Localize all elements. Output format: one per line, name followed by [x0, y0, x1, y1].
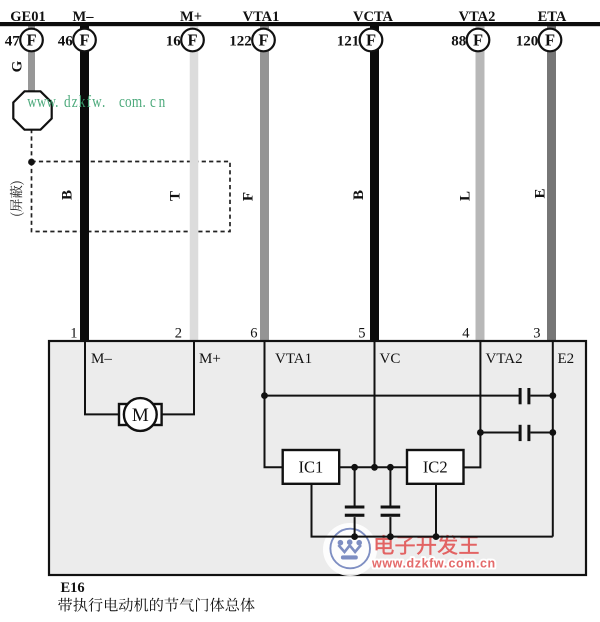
svg-text:VTA2: VTA2 — [459, 9, 496, 25]
watermark red url — [371, 557, 496, 571]
connector VTA2 pin 88 circle — [467, 29, 490, 52]
capacitor C1 — [354, 467, 356, 505]
connector VTA1 pin 122 circle — [252, 29, 275, 52]
node VC junction — [371, 464, 378, 471]
svg-text:VTA1: VTA1 — [275, 351, 312, 367]
wire VTA2 to IC2 — [464, 433, 481, 468]
wire G segment — [28, 26, 35, 92]
shield dashed box — [32, 162, 231, 232]
wire M- to motor — [85, 341, 118, 414]
svg-text:46: 46 — [58, 34, 74, 50]
svg-text:M: M — [132, 405, 149, 426]
node shield junction — [28, 159, 35, 166]
svg-text:ETA: ETA — [538, 9, 567, 25]
wire B (M–) — [80, 26, 89, 342]
svg-text:L: L — [458, 191, 474, 201]
svg-text:E: E — [533, 188, 549, 198]
ic IC2 — [407, 450, 464, 484]
svg-text:2: 2 — [175, 326, 182, 342]
svg-text:122: 122 — [229, 34, 252, 50]
svg-text:M–: M– — [73, 9, 95, 25]
connector M– pin 46 circle — [73, 29, 96, 52]
svg-text:com.: com. — [119, 93, 146, 112]
svg-text:88: 88 — [451, 34, 466, 50]
svg-text:1: 1 — [70, 326, 77, 342]
wire VC vertical — [374, 341, 376, 467]
svg-text:F: F — [79, 31, 89, 50]
svg-text:F: F — [473, 31, 483, 50]
svg-text:T: T — [168, 191, 184, 201]
node IC2 bottom — [433, 533, 440, 540]
connector GE01 pin 47 circle — [20, 29, 43, 52]
svg-text:E2: E2 — [558, 351, 575, 367]
svg-text:IC1: IC1 — [299, 458, 324, 477]
capacitor C4 — [519, 425, 522, 441]
svg-text:VTA1: VTA1 — [243, 9, 280, 25]
svg-text:GE01: GE01 — [10, 9, 45, 25]
node VTA2 branch — [477, 429, 484, 436]
svg-text:www.: www. — [371, 557, 407, 571]
svg-text:E16: E16 — [61, 580, 85, 596]
wire F (VTA1) — [260, 26, 269, 342]
svg-text:VC: VC — [380, 351, 401, 367]
caption 带执行电动机的节气门体总体 — [58, 598, 255, 612]
wire VTA2 to C4 — [480, 432, 519, 434]
motor M — [119, 404, 162, 425]
node C2 bottom — [387, 533, 394, 540]
svg-text:G: G — [10, 60, 26, 72]
svg-text:120: 120 — [516, 34, 539, 50]
watermark logo W — [323, 523, 377, 576]
svg-text:47: 47 — [5, 34, 21, 50]
wire VTA2 vertical — [479, 341, 481, 433]
wire B (VCTA) — [370, 26, 379, 342]
connector VCTA pin 121 circle — [360, 29, 383, 52]
wire IC1 to IC2 — [339, 466, 407, 468]
svg-text:M+: M+ — [180, 9, 202, 25]
svg-text:121: 121 — [337, 34, 360, 50]
connector bar — [0, 22, 600, 26]
svg-text:F: F — [258, 31, 268, 50]
wire IC2 bottom — [435, 484, 437, 537]
svg-text:dzkfw.: dzkfw. — [407, 557, 448, 571]
node C3-E2 — [549, 392, 556, 399]
node C1 bottom — [351, 533, 358, 540]
svg-text:VTA2: VTA2 — [486, 351, 523, 367]
shield octagon — [13, 91, 51, 129]
svg-text:com.: com. — [449, 557, 481, 571]
node C2 top — [387, 464, 394, 471]
svg-text:3: 3 — [533, 326, 540, 342]
svg-text:M–: M– — [91, 351, 112, 367]
wire shield dashed lead — [31, 129, 33, 162]
svg-text:F: F — [366, 31, 376, 50]
wire IC1 bottom — [312, 484, 553, 537]
svg-text:6: 6 — [250, 326, 257, 342]
svg-text:F: F — [241, 192, 257, 201]
node VTA1 branch — [261, 392, 268, 399]
svg-text:16: 16 — [166, 34, 182, 50]
svg-text:F: F — [187, 31, 197, 50]
label shield (屏蔽) — [10, 181, 24, 215]
wire VTA1 to C3 — [265, 395, 520, 397]
svg-text:4: 4 — [462, 326, 470, 342]
svg-text:5: 5 — [358, 326, 365, 342]
svg-text:dzkfw.: dzkfw. — [64, 93, 107, 112]
node C1 top — [351, 464, 358, 471]
svg-text:F: F — [545, 31, 555, 50]
svg-text:M+: M+ — [199, 351, 221, 367]
node C4-E2 — [549, 429, 556, 436]
connector ETA pin 120 circle — [539, 29, 562, 52]
svg-text:F: F — [26, 31, 36, 50]
svg-text:cn: cn — [480, 557, 496, 571]
wire E (ETA) — [547, 26, 556, 342]
watermark red title 电子开发王 — [376, 535, 479, 555]
svg-text:B: B — [351, 190, 367, 200]
component box E16 outline — [49, 341, 586, 575]
watermark green url — [27, 93, 168, 112]
svg-text:www.: www. — [27, 93, 58, 112]
svg-text:B: B — [60, 190, 76, 200]
connector M+ pin 16 circle — [181, 29, 204, 52]
wire E2 vertical — [552, 341, 554, 537]
svg-text:VCTA: VCTA — [353, 9, 394, 25]
svg-text:cn: cn — [150, 93, 168, 112]
wire VTA1 vertical — [265, 341, 283, 467]
wire motor to M+ — [162, 341, 194, 414]
capacitor C3 — [519, 388, 522, 404]
wire T (M+) — [190, 26, 199, 342]
wire L (VTA2) — [476, 26, 485, 342]
ic IC1 — [283, 450, 340, 484]
capacitor C2 — [389, 467, 391, 505]
svg-text:IC2: IC2 — [423, 458, 448, 477]
